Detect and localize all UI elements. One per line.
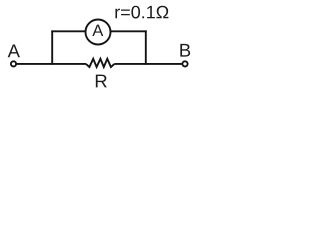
node A label	[8, 44, 20, 57]
resistor R label	[96, 75, 107, 88]
ammeter internal resistance label r=0.1 ohm	[115, 6, 168, 19]
wire bottom right (resistor to B)	[114, 63, 182, 65]
wire right branch vertical	[145, 30, 147, 64]
resistor R	[86, 59, 114, 67]
wire left branch vertical	[51, 30, 53, 64]
wire bottom left (A to resistor)	[16, 63, 86, 65]
node B terminal	[182, 61, 187, 66]
node A terminal	[11, 61, 16, 66]
ammeter label A	[92, 25, 103, 36]
node B label	[180, 44, 190, 57]
wire top right horizontal	[110, 30, 147, 32]
wire top left horizontal	[51, 30, 86, 32]
ammeter U1 body	[86, 20, 111, 45]
